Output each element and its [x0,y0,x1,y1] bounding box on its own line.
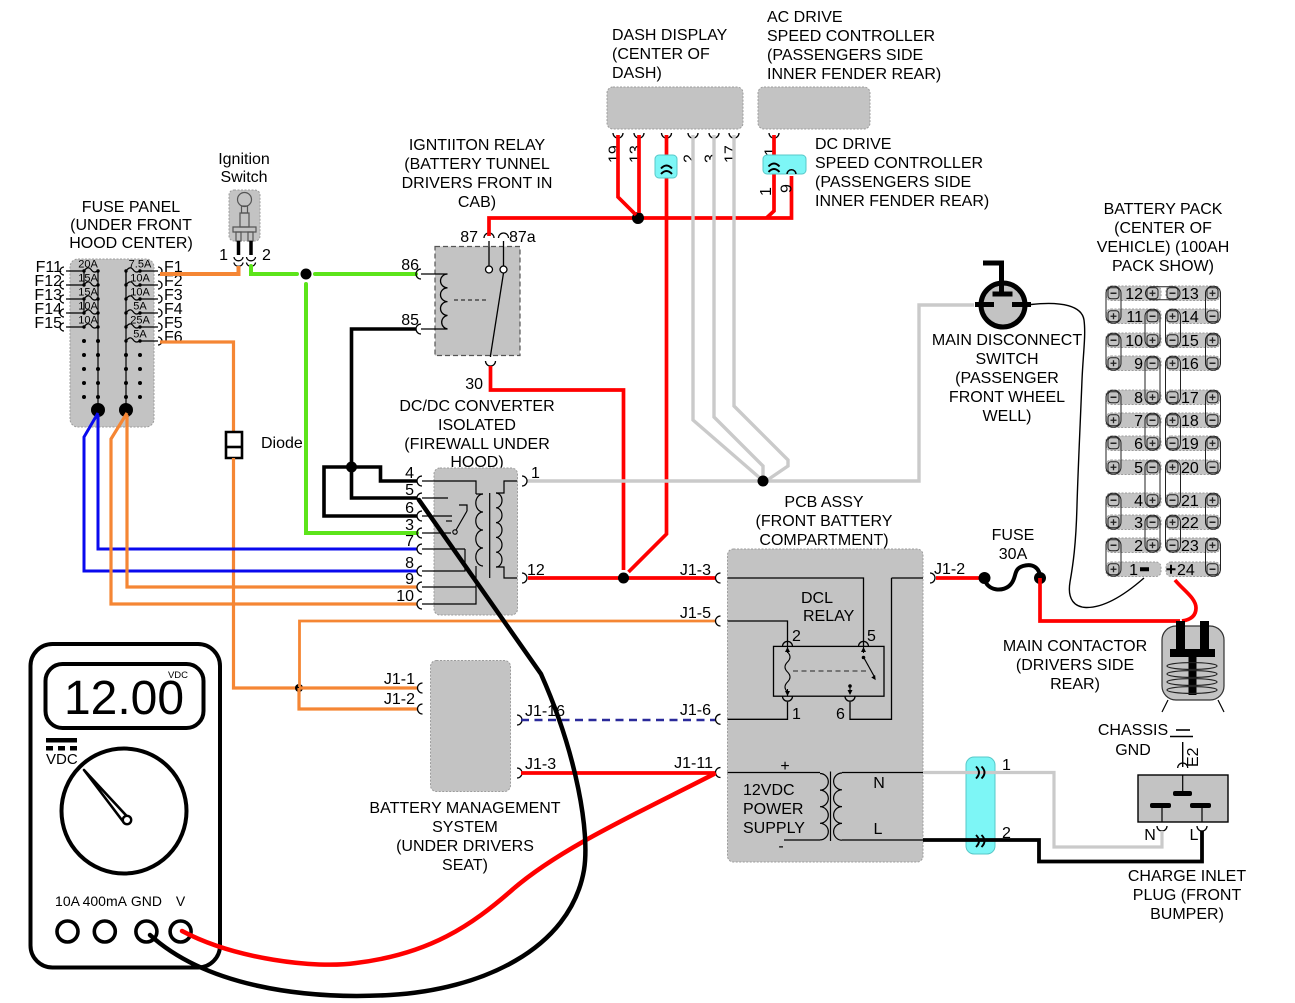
wire F1 to ignition switch pin1 (orange) [160,266,239,274]
fuse F5 25A [124,315,182,333]
battery cell 14 [1166,309,1220,326]
multimeter M1 [31,644,221,968]
svg-text:10: 10 [396,588,414,605]
DC/DC pin 3 [405,517,422,538]
relay K1 pin 85 [401,312,421,334]
svg-text:13: 13 [1181,286,1199,303]
svg-text:2: 2 [1002,825,1011,842]
svg-text:J1-6: J1-6 [680,702,711,719]
svg-text:12.00: 12.00 [64,672,184,725]
DC/DC converter U1 [399,398,554,615]
fuse F11 20A [36,259,100,277]
DC/DC pin 4 [405,465,422,486]
svg-text:L: L [874,821,883,838]
PCB pin J1-5 [680,605,721,626]
svg-text:ISOLATED: ISOLATED [438,417,516,434]
svg-text:WELL): WELL) [983,408,1032,425]
wire node to BMS J1-1 (orange) [299,686,418,689]
svg-text:17: 17 [1181,390,1199,407]
svg-text:J1-5: J1-5 [680,605,711,622]
PCB pin J1-2 [930,561,965,583]
DCL relay pin 2 [783,628,802,646]
inline connector dash pin 1 (cyan) [655,155,677,178]
battery cell 10 [1106,333,1161,350]
svg-text:GND: GND [1115,742,1151,759]
wire DC/DC pin 1 to main disconnect switch (gray) [528,305,975,481]
svg-text:10A: 10A [78,301,98,313]
svg-text:FUSE PANEL: FUSE PANEL [82,199,181,216]
svg-text:86: 86 [401,257,419,274]
relay K1 contact 87 [460,229,494,273]
svg-text:J1-2: J1-2 [934,561,965,578]
svg-text:E2: E2 [1185,747,1202,767]
wire ignition switch pin2 to node G1 (green) [251,266,297,274]
svg-text:15: 15 [1181,333,1199,350]
battery cell 1 [1106,562,1161,579]
battery cell 19 [1166,436,1220,453]
wire node G1 to DC/DC pin 3 (green) [306,284,417,533]
dash display pin 19 [607,133,624,163]
svg-text:87: 87 [460,229,478,246]
wire dash pin 17 to node GY (gray) [734,135,788,482]
ignition switch pin 2 [247,241,272,266]
AC drive pin 1 [763,133,780,156]
svg-text:(FIREWALL UNDER: (FIREWALL UNDER [404,436,550,453]
DC/DC pin 5 [405,482,422,503]
svg-text:N: N [873,775,885,792]
svg-text:6: 6 [836,706,845,723]
svg-text:7: 7 [405,533,414,550]
svg-text:7: 7 [1134,413,1143,430]
battery cell 20 [1166,460,1220,477]
svg-text:SUPPLY: SUPPLY [743,820,805,837]
svg-text:(PASSENGER: (PASSENGER [955,370,1059,387]
battery cell 7 [1106,413,1161,430]
fuse F30 30A [979,527,1047,590]
svg-text:20A: 20A [78,259,98,271]
svg-text:1: 1 [792,706,801,723]
fuse F12 15A [34,273,99,291]
svg-text:12VDC: 12VDC [743,782,795,799]
node G1 junction [301,269,312,280]
charge inlet plug (front bumper) [1128,775,1246,923]
svg-text:RELAY: RELAY [803,608,855,625]
svg-text:3: 3 [405,517,414,534]
dash display pin 17 [723,133,740,163]
svg-text:18: 18 [1181,413,1199,430]
relay K1 pin 86 [401,257,421,279]
battery cell 4 [1106,493,1161,510]
svg-text:11: 11 [1126,309,1143,326]
svg-text:5: 5 [867,628,876,645]
svg-text:VDC: VDC [46,751,78,768]
DC/DC pin 8 [405,555,422,576]
ignition switch pin 1 [219,241,243,266]
svg-text:L: L [1190,827,1199,844]
svg-text:INNER FENDER REAR): INNER FENDER REAR) [767,66,941,83]
svg-text:(CENTER OF: (CENTER OF [1114,220,1212,237]
svg-text:2: 2 [792,628,801,645]
svg-text:10A: 10A [55,893,81,909]
svg-text:2: 2 [1134,538,1143,555]
svg-text:BATTERY MANAGEMENT: BATTERY MANAGEMENT [369,800,560,817]
battery cell 8 [1106,390,1161,407]
wire relay 87 to red bus (red) [489,176,792,236]
svg-text:85: 85 [401,312,419,329]
wire BMS J1-16 to PCB J1-6 (dashed blue) [517,703,715,725]
DCL relay pin 1 [783,696,802,723]
fuse F3 10A [124,287,182,305]
svg-text:HOOD CENTER): HOOD CENTER) [69,235,193,252]
svg-text:6: 6 [1134,436,1143,453]
battery cell 24 [1166,562,1220,579]
BMS pin J1-2 [384,691,423,714]
node R1 red junction [632,212,644,224]
svg-text:BUMPER): BUMPER) [1150,906,1224,923]
svg-text:16: 16 [1181,356,1199,373]
svg-text:PLUG (FRONT: PLUG (FRONT [1133,887,1242,904]
dash display pin 2 [682,133,699,163]
BMS pin J1-1 [384,671,423,693]
wire dash pin 19 to node R1 (red) [618,135,636,215]
fuse panel (under front hood center) [69,199,193,427]
fuse panel right pair links [125,271,127,285]
battery interconnect straps [1106,286,1221,576]
DC/DC pin 9 [405,571,422,592]
svg-text:GND: GND [131,893,162,909]
wire node G1 to ignition relay pin 86 (green) [315,272,416,276]
fuse F2 10A [124,273,182,291]
svg-text:5A: 5A [133,329,147,341]
svg-text:FUSE: FUSE [992,527,1035,544]
fuse F14 10A [34,301,99,319]
DC/DC transformer [476,493,502,578]
svg-text:30A: 30A [999,546,1028,563]
DC/DC internal wiring [422,481,517,604]
svg-text:DASH): DASH) [612,65,662,82]
svg-text:10: 10 [1125,333,1143,350]
svg-text:MAIN CONTACTOR: MAIN CONTACTOR [1003,638,1147,655]
ignition switch SW1 [218,151,270,241]
inline charge connector (cyan) [966,757,995,854]
DC/DC pin 7 [405,533,422,554]
diode D1 [226,432,303,458]
svg-text:VDC: VDC [168,670,188,681]
12VDC power supply T1 [728,758,924,855]
svg-text:1: 1 [1002,757,1011,774]
svg-text:SPEED CONTROLLER: SPEED CONTROLLER [767,28,935,45]
DCL relay switch blade [848,647,876,695]
wire diode to BMS node (orange) [234,458,299,688]
svg-text:CAB): CAB) [458,194,496,211]
svg-text:SEAT): SEAT) [442,857,488,874]
svg-text:J1-11: J1-11 [674,755,713,772]
svg-text:FRONT WHEEL: FRONT WHEEL [949,389,1065,406]
wire dash pin 13 to node R1 (red) [637,135,641,213]
svg-text:7.5A: 7.5A [129,259,152,271]
fuse F1 7.5A [124,259,182,277]
ignition relay K1 [402,137,553,356]
wire BMS J1-3 to PCB J1-11 (red) [517,756,715,778]
svg-text:J1-2: J1-2 [384,691,415,708]
wire node B1 to DC/DC pin 4 (black) [352,467,418,481]
wire node to BMS J1-2 (orange) [299,688,418,709]
svg-text:13: 13 [628,145,645,163]
relay K1 contact 87a [499,229,536,273]
wire battery +24 to main contactor (red) [1175,580,1196,621]
wire fuse F30 to main contactor (red) [1040,578,1180,621]
svg-text:8: 8 [1134,390,1143,407]
svg-text:SPEED CONTROLLER: SPEED CONTROLLER [815,155,983,172]
DCL relay K2 [774,590,885,696]
svg-text:DC DRIVE: DC DRIVE [815,136,891,153]
svg-text:(FRONT BATTERY: (FRONT BATTERY [756,513,893,530]
svg-text:(BATTERY TUNNEL: (BATTERY TUNNEL [404,156,550,173]
svg-text:20: 20 [1181,460,1199,477]
svg-text:22: 22 [1181,515,1199,532]
battery cell 11 [1106,309,1161,326]
wire multimeter GND probe to DC/DC pin 5 (black) [150,500,585,996]
svg-text:J1-3: J1-3 [525,756,556,773]
svg-text:DCL: DCL [801,590,833,607]
charge inlet pin L [1190,826,1207,844]
battery cell 15 [1166,333,1220,350]
DC/DC pin 1 [522,465,540,486]
PCB internal wiring [728,578,924,719]
battery cell 2 [1106,538,1161,555]
wire fuse panel to DC/DC pin 9 (orange) [127,415,417,587]
svg-text:1: 1 [219,247,228,264]
svg-text:1: 1 [1129,562,1138,579]
svg-text:INNER FENDER REAR): INNER FENDER REAR) [815,193,989,210]
svg-text:(PASSENGERS SIDE: (PASSENGERS SIDE [767,47,923,64]
fuse F6 5A [124,329,182,347]
svg-text:15A: 15A [78,273,98,285]
svg-text:AC DRIVE: AC DRIVE [767,9,843,26]
wire node B1 to DC/DC pin 5 (black) [352,467,418,498]
fuse F13 15A [34,287,99,305]
svg-text:9: 9 [1134,356,1143,373]
PCB pin J1-3 [680,562,721,583]
svg-text:87a: 87a [509,229,536,246]
AC drive speed controller [758,9,941,129]
dash display module [607,27,743,129]
svg-text:CHASSIS: CHASSIS [1098,722,1168,739]
dash display pin 1 [655,133,672,163]
svg-text:-: - [778,838,783,855]
DCL relay coil [785,647,790,696]
svg-text:(UNDER DRIVERS: (UNDER DRIVERS [396,838,534,855]
svg-text:DRIVERS FRONT IN: DRIVERS FRONT IN [402,175,553,192]
svg-text:SYSTEM: SYSTEM [432,819,498,836]
battery management system [369,661,560,875]
svg-text:25A: 25A [130,315,150,327]
svg-text:21: 21 [1181,493,1199,510]
svg-text:4: 4 [1134,493,1143,510]
DCL relay dashed link [793,670,868,672]
wire fuse panel to DC/DC pin 10 (orange) [111,413,417,604]
wire fuse panel to DC/DC pin 7 (blue) [98,415,417,549]
svg-text:17: 17 [723,145,740,163]
battery cell 12 [1106,286,1161,303]
svg-text:IGNTIITON RELAY: IGNTIITON RELAY [409,137,546,154]
svg-text:23: 23 [1181,538,1199,555]
wire PCB J1-2 to fuse F30 (red) [936,576,980,580]
DC/DC pin 10 [396,588,422,609]
svg-text:Switch: Switch [220,169,267,186]
svg-text:2: 2 [682,154,699,163]
wire main disconnect to battery cell 1 negative (black) [1031,303,1144,607]
PCB assembly (front battery compartment) [728,494,924,862]
wire multimeter V probe to PCB J1-11 (red) [182,774,714,965]
main contactor K3 [1003,621,1224,712]
wire PCB L to charge inlet L (black) [923,825,1202,862]
wire node B1 to DC/DC pin 6 (black) [324,467,417,516]
svg-text:CHARGE INLET: CHARGE INLET [1128,868,1246,885]
svg-text:400mA: 400mA [83,893,128,909]
relay K1 dashed link [454,299,487,301]
PCB pin J1-6 [680,702,721,724]
wire fuse panel to DC/DC pin 8 (blue) [84,413,417,571]
DC drive speed controller label [815,136,989,210]
svg-text:5: 5 [1134,460,1143,477]
svg-text:MAIN DISCONNECT: MAIN DISCONNECT [932,332,1082,349]
battery cell 22 [1166,515,1220,532]
wire dash pin 1 to node R2 (red) [629,135,667,572]
svg-text:15A: 15A [78,287,98,299]
svg-text:PCB ASSY: PCB ASSY [784,494,863,511]
fuse F4 5A [124,301,182,319]
wire AC drive pin 1 to red bus (red) [767,135,775,218]
svg-text:30: 30 [465,376,483,393]
fuse panel left pair links [83,271,85,313]
DC/DC pin 12 [522,562,545,583]
battery cell 6 [1106,436,1161,453]
svg-text:V: V [176,893,186,909]
svg-text:(UNDER FRONT: (UNDER FRONT [70,217,192,234]
svg-text:BATTERY PACK: BATTERY PACK [1104,201,1223,218]
battery cell 13 [1166,286,1220,303]
battery pack (center of vehicle) [1097,201,1230,275]
svg-text:(DRIVERS SIDE: (DRIVERS SIDE [1016,657,1134,674]
svg-text:SWITCH: SWITCH [975,351,1038,368]
relay K1 switch blade to pin 30 [465,273,503,393]
svg-text:J1-3: J1-3 [680,562,711,579]
wire relay 30 to node R2 (red) [491,366,624,570]
svg-text:Diode: Diode [261,435,303,452]
DC/DC pin 6 [405,500,422,521]
main disconnect switch S1 [932,263,1082,425]
battery cell 17 [1166,390,1220,407]
battery cell 23 [1166,538,1220,555]
svg-text:9: 9 [405,571,414,588]
wire F6 to diode (orange) [160,342,234,431]
relay K1 coil [421,274,448,329]
svg-text:5A: 5A [133,301,147,313]
node GY gray junction [758,476,769,487]
svg-text:9: 9 [779,184,796,193]
svg-text:3: 3 [1134,515,1143,532]
wire dash pin 3 to node GY (gray) [714,135,763,478]
svg-text:19: 19 [607,145,624,163]
dash display pin 13 [628,133,645,163]
wire DC/DC pin 12 to node R2 (red) [528,576,715,580]
svg-text:3: 3 [703,154,720,163]
svg-text:14: 14 [1181,309,1199,326]
svg-text:F15: F15 [34,315,62,332]
battery cell 5 [1106,460,1161,477]
fuse F15 10A [34,315,99,333]
DCL relay pin 6 [836,696,855,723]
node R2 red junction [618,573,629,584]
svg-text:Ignition: Ignition [218,151,270,168]
svg-text:8: 8 [405,555,414,572]
dash display pin 3 [703,133,720,163]
svg-text:24: 24 [1177,562,1195,579]
wire dash pin 2 to node GY (gray) [693,135,761,479]
svg-text:(PASSENGERS SIDE: (PASSENGERS SIDE [815,174,971,191]
battery cell 16 [1166,356,1220,373]
battery cell 9 [1106,356,1161,373]
chassis ground E2 [1098,722,1202,768]
svg-text:10A: 10A [78,315,98,327]
svg-text:COMPARTMENT): COMPARTMENT) [759,532,888,549]
inline connector AC drive (cyan) [758,155,806,196]
svg-text:(CENTER OF: (CENTER OF [612,46,710,63]
svg-text:10A: 10A [130,273,150,285]
battery cell 18 [1166,413,1220,430]
charge inlet pin N [1144,826,1167,844]
svg-text:REAR): REAR) [1050,676,1100,693]
wire PCB J1-5 to BMS node (orange) [300,621,716,687]
svg-text:10A: 10A [130,287,150,299]
PCB pin J1-11 [674,755,720,778]
svg-text:DASH DISPLAY: DASH DISPLAY [612,27,728,44]
svg-text:VEHICLE) (100AH: VEHICLE) (100AH [1097,239,1230,256]
svg-text:19: 19 [1181,436,1199,453]
node BMS orange junction [295,684,303,692]
svg-text:2: 2 [262,247,271,264]
svg-text:J1-1: J1-1 [384,671,415,688]
svg-text:12: 12 [1125,286,1143,303]
svg-text:PACK SHOW): PACK SHOW) [1112,258,1214,275]
wire relay 85 to DC/DC node B1 (black) [352,329,417,464]
node B1 black junction [346,462,357,473]
svg-text:DC/DC CONVERTER: DC/DC CONVERTER [399,398,554,415]
svg-text:N: N [1144,827,1156,844]
wire PCB N to charge inlet N (gray) [923,757,1162,847]
battery cell 21 [1166,493,1220,510]
svg-text:1: 1 [531,465,540,482]
battery cell 3 [1106,515,1161,532]
svg-text:POWER: POWER [743,801,803,818]
DCL relay pin 5 [859,628,877,646]
svg-text:1: 1 [758,187,775,196]
